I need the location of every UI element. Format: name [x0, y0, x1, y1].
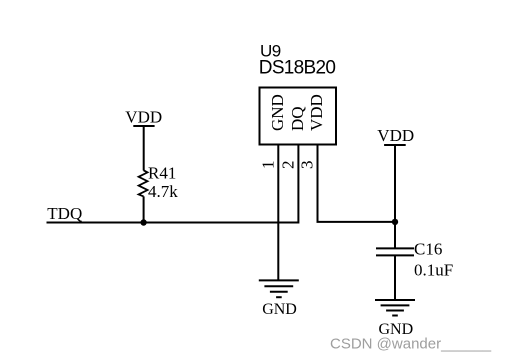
svg-text:GND: GND	[268, 94, 287, 131]
ground symbol (right)	[375, 300, 415, 338]
svg-text:VDD: VDD	[377, 126, 414, 145]
junction dot at R41/TDQ	[140, 219, 146, 225]
wire pin3 (VDD pin) down then right to VDD rail	[318, 146, 396, 222]
svg-text:R41: R41	[148, 164, 176, 183]
wire pin1 (GND pin) down to ground	[277, 146, 279, 281]
svg-text:GND: GND	[262, 301, 297, 318]
ground symbol (left)	[259, 280, 299, 317]
svg-text:2: 2	[278, 161, 297, 170]
component body U9 box	[260, 88, 337, 145]
resistor R41	[139, 164, 179, 223]
wire pin2 (DQ pin) down to TDQ wire	[297, 146, 299, 224]
svg-text:0.1uF: 0.1uF	[414, 261, 453, 280]
capacitor C16	[376, 222, 453, 300]
junction dot at VDD/C16	[392, 219, 398, 225]
svg-text:VDD: VDD	[125, 108, 162, 127]
power symbol VDD (left)	[125, 108, 162, 171]
svg-text:TDQ: TDQ	[47, 204, 82, 223]
svg-text:C16: C16	[414, 239, 442, 258]
svg-text:4.7k: 4.7k	[148, 182, 178, 201]
svg-text:VDD: VDD	[307, 94, 326, 131]
svg-text:1: 1	[258, 161, 277, 170]
svg-text:DQ: DQ	[288, 106, 307, 131]
svg-text:DS18B20: DS18B20	[259, 57, 336, 78]
svg-text:3: 3	[298, 161, 317, 170]
power symbol VDD (right)	[377, 126, 414, 222]
svg-text:CSDN @wander______: CSDN @wander______	[330, 336, 492, 353]
wire TDQ horizontal	[47, 222, 299, 224]
